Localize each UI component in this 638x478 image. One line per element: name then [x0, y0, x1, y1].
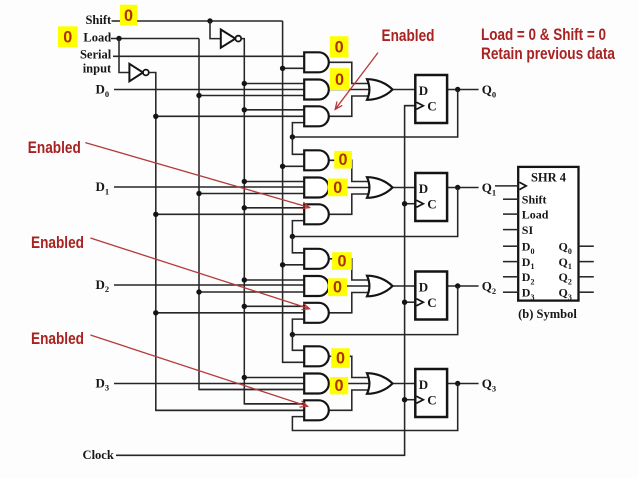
wire NOT-Load stub to AND gate A2c middle [156, 312, 307, 314]
AND gate A0a (shift term) [304, 52, 329, 72]
wire D2 input line [114, 284, 307, 286]
junction clock bus at FF1 [402, 201, 407, 206]
wire D1 input line [114, 186, 307, 188]
wire Load stub to AND gate A2b bottom [199, 291, 307, 293]
junction NOT-Shift bus at A3b [242, 375, 247, 380]
junction NOT-Load bus at A0c [153, 114, 158, 119]
junction Load bus at A1b [196, 191, 201, 196]
OR gate O0 [367, 79, 393, 100]
wire NOT-Shift stub to AND gate A3c top [244, 403, 307, 405]
node Q1 output junction [455, 185, 460, 190]
svg-text:C: C [427, 98, 436, 113]
wire clock stub to FF0 C input [405, 105, 417, 107]
AND gate A3c (hold term) [304, 400, 329, 420]
wire Q2 feedback loop [292, 286, 457, 335]
wire Q0 feedback loop [292, 90, 457, 138]
annotation arrow to AND A2c [90, 238, 309, 309]
wire D0 input line [114, 89, 307, 91]
wire FF2 Q output line [447, 285, 479, 287]
junction NOT-Shift bus at A0c [242, 107, 247, 112]
inverter U2 (NOT Load) [129, 64, 143, 82]
svg-text:0: 0 [124, 7, 133, 25]
value 0 highlight at AND A0b output [330, 68, 349, 90]
OR gate O1 [367, 177, 393, 198]
annotation arrow to AND A3c [90, 335, 307, 406]
wire AND A1c output to OR O1 [329, 194, 372, 214]
SHR 4 input stub D3 [503, 291, 518, 293]
svg-text:(b) Symbol: (b) Symbol [518, 307, 577, 321]
SHR 4 clock wedge [519, 182, 526, 189]
wire FF3 Q output line [447, 383, 479, 385]
SHR 4 clock input stub [495, 185, 518, 187]
wire NOT-Shift stub to AND gate A1b top [244, 181, 307, 183]
junction Shift bus at A1a [280, 164, 285, 169]
wire AND A2b output to OR O2 [329, 285, 372, 287]
junction NOT-Shift bus at A0b [242, 81, 247, 86]
wire Shift bus stub to AND gate A1a [283, 165, 308, 167]
D flip-flop FF1 [415, 173, 447, 221]
svg-text:D: D [419, 279, 428, 294]
wire Shift bus stub to AND gate A2a [283, 264, 308, 266]
wire Load stub to AND gate A0b bottom [199, 95, 307, 97]
svg-text:0: 0 [338, 151, 347, 169]
wire AND A1b output to OR O1 [329, 187, 372, 189]
AND gate A1c (hold term) [304, 204, 329, 224]
SHR 4 input stub D1 [503, 261, 518, 263]
SHR 4 input stub D0 [503, 245, 518, 247]
wire AND A2c output to OR O2 [329, 293, 372, 313]
FF1 clock wedge [417, 200, 424, 207]
wire FF0 Q output line [447, 89, 479, 91]
junction Shift bus at A2a [280, 262, 285, 267]
AND gate A3b (load term) [304, 374, 329, 394]
svg-text:Load: Load [522, 208, 549, 222]
wire Q1 feedback loop [292, 188, 457, 237]
svg-text:0: 0 [334, 377, 343, 395]
SHR 4 input stub Shift [503, 198, 518, 200]
wire Load to inverter U2 input [119, 39, 129, 73]
junction NOT-Shift bus at A2c [242, 304, 247, 309]
node Q2 output junction [455, 283, 460, 288]
wire Load input line [111, 38, 199, 40]
svg-text:0: 0 [333, 279, 342, 297]
FF0 clock wedge [417, 102, 424, 109]
value 0 highlight at AND A0a output [330, 36, 349, 57]
svg-text:Enabled: Enabled [28, 139, 81, 157]
wire AND A1a output to OR O1 [329, 160, 372, 181]
wire Load vertical bus [199, 39, 307, 390]
junction clock bus at FF3 [402, 397, 407, 402]
wire OR O1 output to flip-flop FF1 D input [393, 187, 417, 189]
wire Serial input line [113, 55, 307, 57]
wire AND A2a output to OR O2 [329, 259, 372, 280]
value 0 highlight on Shift input [120, 5, 137, 26]
node Q3 output junction [455, 381, 460, 386]
wire Q0 to AND gate A1a input [292, 137, 307, 154]
AND gate A2c (hold term) [304, 303, 329, 323]
junction Shift line to inverter [207, 18, 212, 23]
svg-text:C: C [427, 295, 436, 310]
D flip-flop FF2 [415, 272, 447, 320]
SHR 4 input stub Load [503, 213, 518, 215]
AND gate A0c (hold term) [304, 106, 329, 126]
svg-text:0: 0 [335, 39, 344, 57]
node Q0 output junction [455, 87, 460, 92]
value 0 highlight at AND A2b output [328, 278, 347, 296]
svg-text:0: 0 [335, 71, 344, 89]
junction Q1 feedback to next stage [290, 234, 295, 239]
svg-text:0: 0 [333, 179, 342, 197]
wire Shift vertical bus [283, 21, 308, 362]
svg-text:SI: SI [522, 223, 534, 237]
FF3 clock wedge [417, 396, 424, 403]
svg-text:D: D [419, 83, 428, 98]
wire Q2 to AND gate A3a input [292, 335, 307, 351]
wire AND A0c output to OR O0 [329, 96, 372, 116]
wire clock stub to FF2 C input [405, 301, 417, 303]
SHR 4 output stub Q1 [579, 261, 594, 263]
junction clock bus at FF2 [402, 300, 407, 305]
svg-text:Enabled: Enabled [31, 234, 84, 252]
wire AND A3c output to OR O3 [329, 390, 372, 410]
value 0 highlight at AND A3a output [331, 348, 350, 368]
wire Load stub to AND gate A1b bottom [199, 193, 307, 195]
wire AND A3b output to OR O3 [329, 383, 372, 385]
wire NOT-Shift stub to AND gate A0b top [244, 83, 307, 85]
svg-text:0: 0 [337, 253, 346, 271]
SHR 4 output stub Q2 [579, 276, 594, 278]
wire Q1 to AND gate A2a input [292, 237, 307, 253]
svg-text:Enabled: Enabled [31, 330, 84, 348]
wire NOT-Shift stub to AND gate A2b top [244, 279, 307, 281]
wire clock stub to FF1 C input [405, 203, 417, 205]
wire NOT-Shift stub to AND gate A1c top [244, 207, 307, 209]
value 0 highlight at AND A3b output [330, 377, 348, 394]
svg-text:C: C [427, 392, 436, 407]
junction NOT-Load bus at A2c [153, 310, 158, 315]
SHR 4 output stub Q3 [579, 291, 594, 293]
wire NOT-Shift stub to AND gate A2c top [244, 305, 307, 307]
junction Q2 feedback to next stage [290, 332, 295, 337]
wire clock stub to FF3 C input [405, 399, 417, 401]
svg-text:0: 0 [63, 29, 72, 47]
wire NOT-Load stub to AND gate A0c middle [156, 115, 307, 117]
SHR 4 symbol box [518, 167, 578, 301]
wire AND A0a output to OR O0 [329, 62, 372, 83]
AND gate A2a (shift term) [304, 249, 329, 269]
wire OR O2 output to flip-flop FF2 D input [393, 285, 417, 287]
wire NOT-Shift stub to AND gate A3b top [244, 377, 307, 379]
wire NOT-Shift vertical bus [241, 39, 307, 404]
D flip-flop FF3 [415, 369, 447, 417]
svg-text:Clock: Clock [83, 448, 114, 462]
value 0 highlight at AND A1a output [334, 151, 352, 169]
FF2 clock wedge [417, 299, 424, 306]
wire AND A3a output to OR O3 [329, 356, 372, 377]
junction NOT-Shift bus at A1b [242, 179, 247, 184]
wire NOT-Shift stub to AND gate A0c top [244, 109, 307, 111]
junction Load bus at A0b [196, 93, 201, 98]
SHR 4 output stub Q0 [579, 245, 594, 247]
svg-text:SHR 4: SHR 4 [531, 170, 567, 184]
inverter U1 (NOT Shift) [221, 30, 236, 48]
wire NOT-Load stub to AND gate A1c middle [156, 213, 307, 215]
svg-text:Load = 0 & Shift = 0: Load = 0 & Shift = 0 [481, 26, 606, 44]
wire AND A0b output to OR O0 [329, 89, 372, 91]
OR gate O2 [367, 276, 393, 297]
wire Load stub to AND gate A3b bottom [199, 389, 307, 391]
wire Q3 feedback loop [292, 384, 457, 431]
D flip-flop FF0 [415, 75, 447, 123]
AND gate A3a (shift term) [304, 346, 329, 366]
wire Shift bus stub to AND gate A0a [283, 67, 308, 69]
svg-text:Load: Load [83, 31, 111, 45]
wire NOT-Load stub to AND gate A3c middle [156, 409, 307, 411]
svg-text:input: input [83, 61, 112, 75]
wire Clock line and clock vertical bus [116, 106, 416, 456]
svg-text:Shift: Shift [522, 193, 547, 207]
junction NOT-Shift bus at A2b [242, 277, 247, 282]
junction Q0 feedback to next stage [290, 134, 295, 139]
svg-text:Shift: Shift [85, 13, 112, 27]
wire OR O0 output to flip-flop FF0 D input [393, 89, 417, 91]
value 0 highlight at AND A2a output [332, 252, 352, 270]
AND gate A2b (load term) [304, 276, 329, 296]
svg-text:0: 0 [336, 350, 345, 368]
svg-text:D: D [419, 377, 428, 392]
svg-text:D: D [419, 181, 428, 196]
junction Shift bus at A0a [280, 66, 285, 71]
value 0 highlight on Load input [58, 26, 78, 47]
svg-text:Enabled: Enabled [382, 27, 435, 45]
value 0 highlight at AND A1b output [328, 179, 348, 197]
svg-text:Retain previous data: Retain previous data [481, 45, 616, 63]
junction NOT-Load bus at A1c [153, 212, 158, 217]
wire NOT-Load vertical bus [149, 73, 307, 411]
junction Load line to inverter [116, 36, 121, 41]
OR gate O3 [367, 373, 393, 394]
annotation arrow to AND A1c [85, 143, 309, 208]
SHR 4 input stub SI [503, 229, 518, 231]
wire Shift input line [112, 20, 121, 22]
svg-text:C: C [427, 196, 436, 211]
AND gate A0b (load term) [304, 80, 329, 100]
SHR 4 input stub D2 [503, 276, 518, 278]
AND gate A1a (shift term) [304, 150, 329, 170]
svg-text:Serial: Serial [80, 47, 112, 61]
wire FF1 Q output line [447, 187, 479, 189]
annotation arrow to AND A0c [335, 53, 378, 110]
AND gate A1b (load term) [304, 178, 329, 198]
wire D3 input line [114, 383, 307, 385]
wire OR O3 output to flip-flop FF3 D input [393, 383, 417, 385]
wire Shift to inverter U1 input [210, 21, 221, 39]
junction Load bus at A2b [196, 289, 201, 294]
junction NOT-Shift bus at A1c [242, 205, 247, 210]
